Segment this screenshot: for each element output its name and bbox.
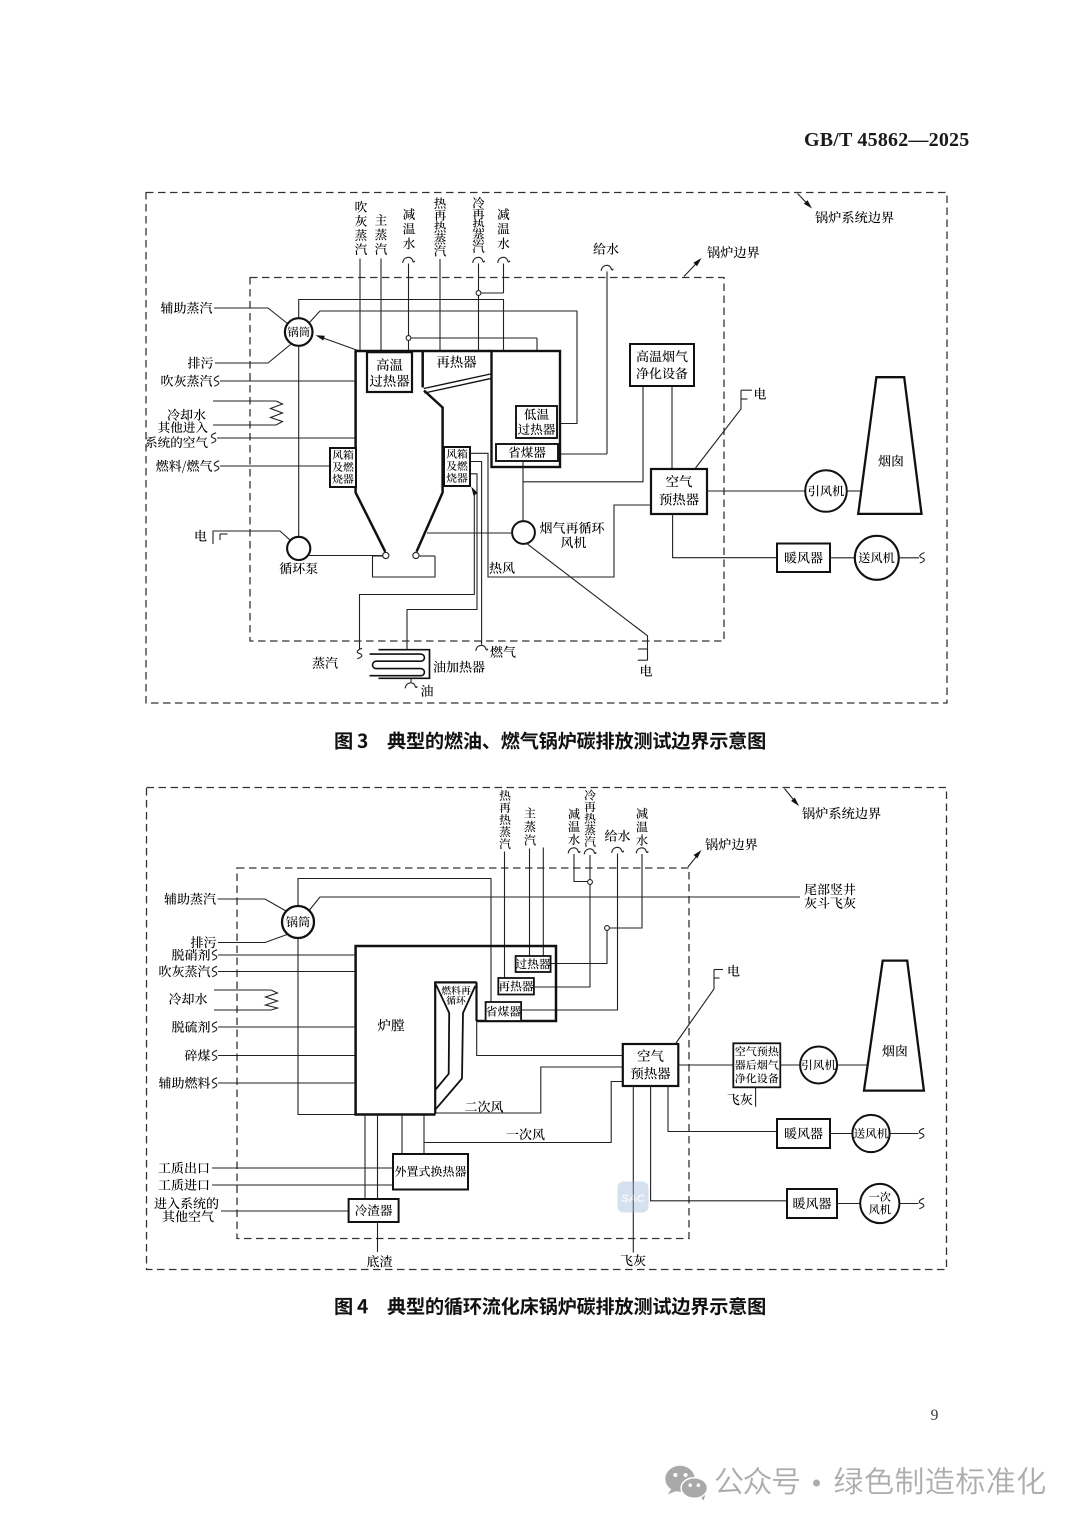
wire furnace to 烟气再循环风机 <box>427 532 512 534</box>
wire 热风 from 空气预热器 to windbox <box>471 453 651 577</box>
label 脱硝剂 fig4 <box>172 949 184 961</box>
label 冷却水 fig4 <box>169 993 181 1005</box>
label 燃料/燃气 fig3 <box>156 460 168 472</box>
label 冷却水 fig3 <box>168 409 180 421</box>
cooling water coil fig4 <box>214 989 271 991</box>
svg-text:SAC: SAC <box>621 1193 645 1205</box>
wire 锅筒 top to 省煤器 top (feed line) <box>299 300 504 445</box>
wire 辅助蒸汽 to 锅筒 <box>214 308 288 324</box>
wire 碎煤 to furnace <box>218 1055 356 1057</box>
wire 锅筒 down to 循环泵 <box>298 346 300 537</box>
wire 引风机 to 烟囱 fig4 <box>837 1064 868 1066</box>
junction node on 减温水 line <box>406 336 411 341</box>
wires furnace bottom to 外置式换热器 <box>401 1115 403 1155</box>
label 热再热蒸汽 fig4 top <box>500 790 511 801</box>
fan 一次风机 <box>860 1184 899 1223</box>
label 底渣 <box>367 1255 379 1267</box>
box 省煤器 fig3 <box>496 444 558 461</box>
fan 引风机 fig3 <box>805 470 847 512</box>
wire 锅筒 to 低温过热器 (saturated steam) <box>309 311 578 424</box>
wire 暖风器 to 送风机 <box>830 557 855 559</box>
furnace wall fig3 <box>356 351 386 552</box>
label 辅助蒸汽 fig4 <box>164 893 176 905</box>
wire 暖风器 to 送风机 fig4 <box>830 1133 852 1135</box>
box 冷渣器 <box>349 1199 399 1222</box>
wire oil line to 油加热器 <box>407 474 477 650</box>
label 热再热蒸汽 fig3 top <box>434 197 446 209</box>
box 暖风器 fig4 lower <box>787 1189 837 1218</box>
label 其他进入系统的空气 fig3 <box>158 421 170 433</box>
wire 净化设备 飞灰 outlet <box>755 1087 757 1106</box>
wire 脱硝剂 to furnace <box>218 954 356 956</box>
wire 锅筒 down to furnace bottom fig4 <box>298 938 355 1115</box>
SAC watermark <box>618 1182 649 1213</box>
label 燃气 fig3 <box>490 646 502 658</box>
wire 排污 to 锅筒 <box>215 345 291 364</box>
wire second steam line to 过热器 fig4 <box>542 848 544 957</box>
label 蒸汽 fig3 <box>357 648 362 658</box>
cyclone 燃料再循环 funnel <box>434 982 436 1114</box>
label 再热器 fig3 <box>437 356 450 368</box>
label 给水 fig3 <box>593 243 605 255</box>
drum 锅筒 fig4 <box>282 906 314 938</box>
chimney 烟囱 fig3 <box>858 377 921 514</box>
cooling water coil fig3 <box>213 400 276 402</box>
chimney 烟囱 fig4 <box>864 961 924 1091</box>
label 给水 fig4 <box>605 830 617 842</box>
wire 冷再热蒸汽 to junction fig4 <box>584 849 596 854</box>
wire 其他空气 to 冷渣器 <box>221 1210 349 1212</box>
label 排污 fig3 <box>188 357 200 369</box>
wire 空气预热器 to upper 暖风器 <box>668 1086 777 1132</box>
wire flue to 高温烟气净化设备 <box>523 386 643 482</box>
ash tray fig3 <box>373 556 436 577</box>
label 油 <box>421 685 433 697</box>
wire 送风机 outlet <box>898 557 919 559</box>
box 暖风器 fig4 upper <box>777 1119 830 1148</box>
wire 辅助燃料 to furnace <box>218 1082 356 1084</box>
label 锅炉系统边界 fig4 with arrow <box>785 789 798 805</box>
wire 减温水 to junction to 再热器 fig4 <box>574 854 588 882</box>
box 暖风器 fig3 <box>777 544 830 573</box>
label 减温水 fig3 top second <box>498 208 510 220</box>
wire 循环泵 to hopper <box>308 555 382 557</box>
label 热风 <box>489 562 501 574</box>
wire 一次风 <box>424 1082 623 1143</box>
label 吹灰蒸汽 fig4 <box>159 965 171 977</box>
wire 高温过热器 corner to 锅筒 with arrow <box>319 337 358 351</box>
drum 锅筒 fig3 <box>285 318 313 346</box>
wire 燃气 line <box>471 462 482 645</box>
wire 省煤器 to 烟气再循环风机 <box>522 461 524 521</box>
label 碎煤 fig4 <box>185 1049 197 1061</box>
box 低温过热器 <box>516 406 557 438</box>
box 空气预热器 fig3 <box>651 469 707 514</box>
label 锅炉边界 fig4 with arrow <box>688 853 700 868</box>
wechat logo footer <box>665 1466 707 1501</box>
wire 锅筒 to 尾部竖井灰斗飞灰 <box>308 897 800 912</box>
superheater 高温过热器 box <box>367 352 412 392</box>
wire 空气预热器 to 暖风器 <box>673 514 777 558</box>
wire 烟气再循环风机 to 电 bottom <box>526 543 648 660</box>
box 外置式换热器 <box>393 1154 468 1190</box>
wire 锅筒 top line to 省煤器 fig4 <box>298 879 491 1003</box>
wire 引风机 to 烟囱 <box>847 490 862 492</box>
label 减温水 fig3 top first <box>403 208 415 220</box>
wire 净化设备 to 引风机 fig4 <box>780 1064 800 1066</box>
fan 烟气再循环风机 <box>512 521 535 544</box>
label 工质出口 <box>159 1163 171 1173</box>
wires furnace bottom to 冷渣器 <box>364 1115 366 1200</box>
furnace 炉膛 outline fig4 <box>356 946 556 1115</box>
label 锅炉边界 fig3 with arrow <box>684 261 699 277</box>
figure 3 outer dashed boundary 锅炉系统边界 <box>146 193 947 704</box>
wire 吹灰蒸汽 left to furnace wall <box>220 380 356 382</box>
reheater 再热器 left edge <box>421 351 424 388</box>
wire junction 减温水-低温过热器 horizontal <box>411 337 537 339</box>
oil heater serpentine coil <box>370 654 425 676</box>
wire 给水 down to 省煤器 <box>606 272 608 455</box>
label 油加热器 <box>433 661 445 673</box>
fan 引风机 fig4 <box>800 1047 837 1084</box>
oil outlet stub <box>410 678 412 682</box>
wire 脱硫剂 to furnace <box>218 1026 356 1028</box>
wire 工质出口 <box>212 1167 393 1169</box>
wire 其他空气 to furnace wall <box>217 437 356 439</box>
wire rear pass to 空气预热器 fig4 <box>477 1021 623 1056</box>
rear pass block fig3 <box>492 351 561 467</box>
label 锅炉系统边界 fig3 with arrow <box>798 194 811 207</box>
wire 空气预热器 to 净化设备 fig4 <box>678 1064 733 1066</box>
windbox 风箱及燃烧器 left <box>330 448 356 487</box>
wire 暖风器 to 一次风机 <box>837 1203 860 1205</box>
electric symbol fig3 right <box>696 390 742 468</box>
box 省煤器 fig4 <box>486 1002 521 1021</box>
furnace hopper outlet nodes <box>383 552 389 558</box>
wire 减温水 junction down to 高温过热器 <box>408 341 410 353</box>
label 减温水 fig4 first <box>568 808 579 819</box>
wire 热再热蒸汽 to 再热器 fig4 <box>504 852 506 979</box>
electric symbol fig3 bottom <box>638 648 648 650</box>
label 脱硫剂 fig4 <box>172 1021 184 1033</box>
fan 送风机 fig4 <box>852 1115 889 1152</box>
wire 吹灰蒸汽 to furnace fig4 <box>218 971 356 973</box>
box 再热器 fig4 <box>498 978 534 995</box>
box 过热器 fig4 <box>516 956 551 972</box>
label 辅助燃料 fig4 <box>159 1077 171 1089</box>
wire 工质进口 <box>212 1184 393 1186</box>
wire 送风机 outlet fig4 <box>890 1133 919 1135</box>
oil heater 油加热器 shell <box>379 650 430 679</box>
label 排污 fig4 <box>191 936 203 948</box>
box 高温烟气净化设备 <box>630 344 694 386</box>
box 空气预热器 fig4 <box>623 1044 679 1086</box>
reheater 再热器 slanted bottom double line <box>424 374 491 389</box>
label 主蒸汽 fig4 top <box>524 807 535 818</box>
label 辅助蒸汽 fig3 <box>161 302 173 314</box>
figure 3 caption <box>335 732 351 749</box>
wire 高温烟气净化设备 to 空气预热器 <box>671 386 673 468</box>
wire 辅助蒸汽 to 锅筒 fig4 <box>218 899 287 911</box>
label 吹灰蒸汽 fig3 top <box>356 201 367 213</box>
electric symbol fig4 <box>676 970 714 1044</box>
wire 主蒸汽 to 过热器 fig4 <box>529 849 531 957</box>
wire 燃料燃气 to 风箱 <box>220 465 330 467</box>
wire burner steam line with arrow into windbox <box>360 492 475 650</box>
wire 主蒸汽 to 高温过热器 <box>380 259 382 353</box>
figure 4 inner dashed boundary 锅炉边界 <box>237 868 689 1239</box>
wire 电 to 循环泵 <box>228 531 291 540</box>
wire 空气预热器 to lower 暖风器 <box>651 1086 787 1201</box>
figure 3 inner dashed boundary 锅炉边界 <box>250 278 724 642</box>
label 冷再热蒸汽 fig4 top <box>585 789 596 800</box>
figure 4 caption <box>335 1298 351 1315</box>
label 尾部竖井灰斗飞灰 <box>804 883 816 895</box>
label 吹灰蒸汽 fig3 left <box>161 375 173 387</box>
label 减温水 fig4 second <box>636 808 647 819</box>
wire 冷渣器 to 底渣 <box>377 1222 379 1252</box>
wire 给水 to 省煤器 fig4 <box>522 854 618 1011</box>
wire 空气预热器 to 飞灰 bottom <box>632 1086 634 1253</box>
wire 减温水 second to junction to 过热器 fig4 <box>610 854 643 928</box>
wire 一次风机 outlet <box>899 1203 918 1205</box>
furnace nose and right wall fig3 <box>417 391 443 552</box>
wire 空气预热器 to 引风机 <box>707 490 805 492</box>
wire 减温水 to junction <box>408 264 410 336</box>
label 电 fig3 left <box>196 530 207 542</box>
windbox 风箱及燃烧器 right <box>444 447 470 486</box>
wire 冷再热蒸汽 down through junction to 再热器 <box>478 264 480 291</box>
label 工质进口 <box>159 1180 171 1190</box>
footer text 公众号 绿色制造标准化 <box>716 1468 743 1495</box>
figure 4 outer dashed boundary 锅炉系统边界 <box>147 788 947 1270</box>
label 主蒸汽 fig3 top <box>375 214 387 225</box>
label 进入系统的其他空气 <box>154 1197 166 1209</box>
wire 减温水 second down to junction with 冷再热蒸汽 <box>503 264 505 294</box>
svg-text:9: 9 <box>931 1407 939 1424</box>
electric symbol fig3 left <box>213 531 228 544</box>
wire 热再热蒸汽 to 再热器 <box>439 259 441 352</box>
wire 二次风 <box>436 1067 623 1113</box>
fan 送风机 fig3 <box>855 536 899 580</box>
wire 吹灰蒸汽 to furnace top <box>359 259 361 352</box>
svg-text:GB/T 45862—2025: GB/T 45862—2025 <box>804 129 969 151</box>
box 空气预热器后烟气净化设备 <box>733 1043 780 1087</box>
label 冷再热蒸汽 fig3 top <box>473 197 485 209</box>
pump 循环泵 <box>287 537 310 560</box>
wire 排污 to 锅筒 fig4 <box>218 934 289 943</box>
junction node on 冷再热蒸汽 <box>476 291 481 296</box>
